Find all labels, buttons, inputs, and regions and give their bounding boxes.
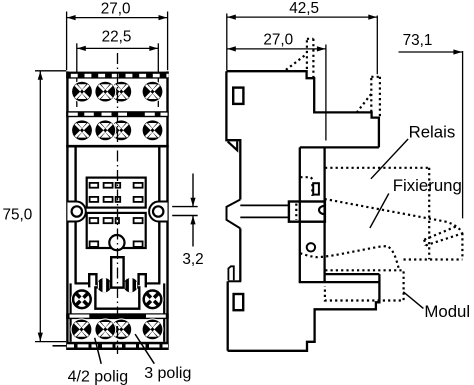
arrowhead 27,0 right	[159, 15, 168, 20]
side view lower right outline	[228, 274, 380, 351]
side view left face mid	[239, 228, 241, 281]
dim 3,2 upper reference line	[172, 206, 198, 208]
lower side hole	[234, 294, 244, 310]
DIN rail stub line	[53, 345, 67, 347]
side view socket outline top	[226, 71, 379, 147]
pin field upper box	[87, 178, 146, 208]
dim 75,0 bottom extension line	[35, 341, 66, 343]
leader 4/2 polig	[95, 338, 102, 364]
ejector slider block	[95, 287, 139, 308]
side view foot top line	[325, 273, 380, 275]
dim 73,1 dimension line	[399, 51, 463, 53]
arrowhead 73,1 right	[453, 49, 462, 54]
leader Modul	[403, 292, 423, 309]
dim 75,0 dimension line	[39, 71, 41, 342]
screw terminal row4 a	[71, 318, 93, 340]
latch small rect	[313, 183, 319, 194]
small circle detail	[307, 243, 315, 251]
lower channel wall left	[69, 283, 71, 341]
relay clip upper-right (dotted bar)	[371, 77, 380, 117]
left ear ring	[72, 206, 82, 216]
ejector roller right (hatched)	[124, 276, 138, 296]
screw terminal row4 hidden	[110, 318, 132, 340]
svg-text:4/2 polig: 4/2 polig	[68, 368, 129, 385]
lower claw tab	[228, 266, 233, 280]
top terminal strip (dashed band)	[66, 72, 169, 79]
screw terminal row4 c	[142, 318, 164, 340]
fixing clip top edge (dotted)	[325, 199, 463, 233]
dim 22,5 left extension line	[76, 43, 78, 107]
latch dotted edge	[311, 184, 313, 196]
C detail (half circle)	[319, 206, 325, 214]
dim 75,0 top extension line	[35, 70, 66, 72]
arrowhead 75,0 down	[38, 333, 43, 342]
clip actuator bar bottom	[240, 216, 289, 218]
latch dotted detail	[300, 177, 313, 180]
socket inner right wall foot	[146, 282, 161, 284]
dim 27,0 left extension line	[66, 12, 68, 71]
socket inner left wall	[74, 147, 76, 283]
DIN rail upper claw	[228, 141, 238, 150]
bottom terminal strip (dashed band)	[66, 342, 169, 350]
side view column top edge	[300, 146, 379, 148]
lower channel wall right	[163, 283, 165, 341]
side view dim extension 42,5 right	[376, 16, 378, 75]
dim 22,5 right extension line	[157, 43, 159, 107]
svg-text:Relais: Relais	[409, 123, 456, 142]
arrowhead 3,2 up	[190, 216, 195, 225]
arrowhead 42,5 left	[227, 15, 236, 20]
arrowhead 75,0 up	[38, 71, 43, 80]
left mounting ear	[67, 202, 85, 222]
ejector roller left (hatched)	[97, 276, 111, 296]
dim 27,0 right extension line	[167, 12, 169, 71]
dim 3,2 lower reference line	[172, 215, 198, 217]
relay clip upper-left wedge (dotted)	[286, 54, 306, 70]
arrowhead 27,0side right	[317, 46, 326, 51]
terminal block bottom edge	[66, 145, 169, 148]
dim 22,5 dimension line	[77, 47, 159, 49]
svg-text:3 polig: 3 polig	[144, 365, 191, 382]
clip block dotted inner line	[295, 204, 297, 221]
side view left face lower	[227, 281, 229, 351]
upper side hole	[233, 88, 243, 104]
socket inner left wall foot	[75, 282, 90, 284]
arrowhead 27,0side left	[227, 46, 236, 51]
side view column left edge	[299, 147, 301, 282]
relay outline top (dotted)	[325, 167, 429, 169]
socket body right wall	[166, 71, 168, 342]
screw terminal row1 hidden	[110, 81, 132, 103]
svg-text:Fixierung: Fixierung	[393, 176, 462, 195]
ejector left arm	[89, 274, 96, 287]
side view foot bottom line	[299, 281, 380, 283]
fixing clip handle end (dotted)	[424, 240, 426, 246]
screw terminal row2 hidden	[110, 119, 132, 141]
ejector center tab	[111, 257, 123, 287]
ejector right arm	[139, 274, 146, 287]
relay clip upper-left (dotted bar)	[307, 39, 314, 78]
fixing clip handle lower (dotted)	[426, 234, 462, 246]
dim 3,2 lower arrow shaft	[192, 216, 194, 247]
screw terminal row2 a	[71, 119, 93, 141]
arrowhead 22,5 right	[149, 46, 158, 51]
screw terminal row2 b	[94, 119, 116, 141]
svg-text:Modul: Modul	[424, 302, 470, 321]
dim 42,5 dimension line	[227, 16, 377, 18]
screw terminal row2 c	[142, 119, 164, 141]
DIN rail clip (trapezoid)	[227, 200, 241, 229]
socket body left wall	[66, 71, 68, 342]
leader Relais	[371, 139, 408, 179]
fixing clip lower contour (dotted wavy)	[300, 246, 399, 269]
right mounting ear	[149, 202, 167, 222]
arrowhead 3,2 down	[190, 198, 195, 207]
arrowhead 22,5 left	[77, 46, 86, 51]
pin sockets row3	[90, 218, 143, 223]
center hole circle	[109, 235, 124, 250]
svg-text:27,0: 27,0	[263, 32, 293, 49]
pin sockets row2	[90, 197, 143, 202]
screw terminal row3 b (open style)	[142, 288, 164, 310]
side view left face upper	[226, 71, 240, 199]
divider strip above bottom row (dashed band)	[66, 313, 169, 319]
center line (dash-dot)	[117, 53, 119, 354]
pin field lower box	[87, 213, 146, 248]
socket inner right wall	[158, 147, 160, 283]
lower claw notch bottom	[228, 280, 241, 282]
screw terminal row1 b	[94, 81, 116, 103]
arrowhead 27,0 left	[67, 15, 76, 20]
screw terminal row1 c	[142, 81, 164, 103]
pin sockets row4	[90, 241, 143, 247]
side view dim extension left	[226, 14, 228, 71]
side view dim extension 27,0 right	[325, 45, 327, 141]
dim 3,2 upper arrow shaft	[192, 174, 194, 207]
clip actuator bar top	[240, 204, 289, 206]
leader Fixierung	[370, 194, 389, 229]
fixing clip right face (dotted)	[461, 233, 463, 259]
middle terminal strip (dashed band)	[66, 111, 169, 117]
svg-text:42,5: 42,5	[289, 0, 319, 17]
module outline (dotted)	[325, 270, 404, 300]
svg-text:3,2: 3,2	[182, 251, 203, 268]
fixing clip handle upper (dotted)	[424, 226, 456, 239]
leader 3 polig	[135, 334, 154, 364]
screw terminal row4 b	[94, 318, 116, 340]
clip spring block	[289, 202, 325, 222]
arrowhead 42,5 right	[368, 15, 377, 20]
svg-text:75,0: 75,0	[3, 206, 33, 223]
pin sockets row1	[90, 183, 143, 188]
screw terminal row1 a	[71, 81, 93, 103]
right ear ring	[153, 206, 163, 216]
svg-text:27,0: 27,0	[101, 1, 131, 18]
dim 73,1 extension line	[462, 51, 464, 218]
svg-text:22,5: 22,5	[102, 29, 132, 46]
dim 27,0 (side) dimension line	[227, 48, 326, 50]
fixing clip bottom right (dotted)	[404, 258, 463, 260]
relay clip upper-right wedge (dotted)	[357, 94, 372, 113]
dim 27,0 dimension line	[67, 17, 168, 19]
side view column right edge (body face)	[323, 147, 325, 282]
svg-text:73,1: 73,1	[403, 32, 433, 49]
relay outline right (dotted)	[428, 168, 430, 259]
screw terminal row3 a (open style)	[71, 288, 93, 310]
